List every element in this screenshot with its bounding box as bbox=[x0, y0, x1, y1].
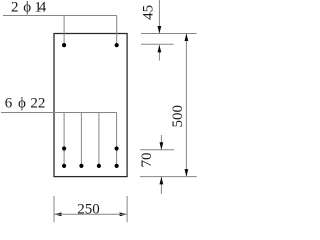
svg-text:500: 500 bbox=[170, 105, 186, 128]
svg-text:45: 45 bbox=[141, 5, 157, 20]
svg-text:6: 6 bbox=[5, 96, 13, 112]
svg-text:22: 22 bbox=[30, 96, 45, 112]
svg-text:2: 2 bbox=[11, 0, 18, 16]
svg-text:ϕ: ϕ bbox=[23, 0, 31, 16]
svg-text:70: 70 bbox=[139, 153, 155, 168]
svg-text:ϕ: ϕ bbox=[18, 96, 26, 112]
svg-text:4: 4 bbox=[39, 0, 47, 16]
svg-text:250: 250 bbox=[77, 202, 100, 218]
